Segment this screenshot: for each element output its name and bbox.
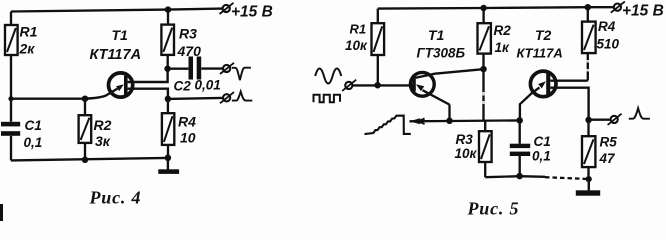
svg-text:ГТ308Б: ГТ308Б	[417, 46, 466, 61]
emitter arrowhead	[116, 84, 124, 91]
waveform negative spike	[232, 68, 251, 81]
wire emitter feed horizontal	[11, 98, 85, 100]
svg-text:0,1: 0,1	[24, 135, 43, 150]
svg-text:R2: R2	[94, 117, 112, 133]
wire R2 bottom lead	[84, 143, 86, 160]
transistor T1 ГТ308Б (pnp)	[410, 27, 483, 121]
svg-text:R1: R1	[350, 22, 367, 37]
node top rail R4	[585, 4, 592, 11]
node top rail R3	[165, 6, 172, 13]
terminal output 1	[220, 63, 234, 74]
wire R3 bottom lead to node	[167, 55, 169, 69]
emitter lead	[423, 90, 450, 104]
waveform positive spike right	[629, 108, 650, 119]
wire bottom rail right circuit	[485, 176, 545, 177]
terminal +15V left	[220, 3, 273, 21]
wire R2 vertical chain	[482, 8, 484, 23]
wire R4 top lead	[587, 7, 589, 21]
wire left vertical lower below C1	[10, 136, 12, 161]
svg-text:R4: R4	[178, 114, 196, 130]
resistor R1 10к	[345, 22, 384, 56]
svg-text:10к: 10к	[455, 146, 478, 161]
svg-text:Т2: Т2	[535, 27, 552, 43]
wire R4 bottom lead to B2	[587, 53, 589, 81]
node left T	[8, 96, 13, 101]
wire top rail left circuit	[11, 9, 222, 12]
wire C2 to terminal	[201, 67, 222, 69]
svg-text:КТ117А: КТ117А	[90, 47, 142, 63]
svg-text:R4: R4	[598, 19, 616, 34]
capacitor C2 0,01	[174, 57, 221, 94]
wire R5 top lead	[587, 120, 589, 136]
svg-text:R2: R2	[494, 23, 512, 38]
resistor R5 47	[582, 135, 617, 168]
emitter arrowhead	[416, 84, 424, 91]
transistor circle	[410, 72, 434, 96]
wire C2 feed from node	[168, 68, 189, 70]
node emitter/R2	[82, 95, 89, 102]
wire R2 top lead	[84, 99, 86, 116]
resistor R3 10к	[455, 131, 492, 162]
wire R1 top lead	[377, 9, 379, 24]
svg-text:R3: R3	[456, 132, 474, 147]
base2 lead	[550, 79, 588, 81]
base bar	[124, 76, 128, 96]
svg-text:1к: 1к	[495, 40, 511, 55]
svg-text:Рис. 4: Рис. 4	[89, 188, 142, 208]
wire output horizontal	[589, 119, 611, 121]
node B2/C2	[164, 65, 171, 72]
arrow head left (filled)	[409, 118, 420, 124]
svg-text:С1: С1	[534, 134, 551, 149]
svg-text:10: 10	[180, 130, 196, 146]
node collector	[480, 66, 487, 73]
resistor R1 2к	[5, 24, 38, 57]
svg-text:КТ117А: КТ117А	[517, 46, 563, 61]
waveform sine	[315, 69, 341, 84]
node R1/input	[374, 82, 381, 89]
wire bottom rail left circuit	[11, 158, 168, 161]
resistor R4 10	[162, 113, 196, 145]
wire top rail right circuit	[378, 7, 614, 8]
base bar	[412, 75, 416, 92]
svg-text:R5: R5	[600, 135, 618, 150]
transistor circle	[109, 73, 133, 97]
node top rail R2	[480, 5, 487, 12]
svg-text:Т1: Т1	[112, 27, 129, 43]
node R4 bottom	[165, 155, 172, 162]
collector lead	[416, 69, 484, 78]
svg-text:Рис. 5: Рис. 5	[467, 199, 520, 219]
capacitor C1 0,1	[1, 118, 42, 150]
node T1 emitter	[446, 118, 453, 125]
emitter arrowhead	[538, 81, 546, 88]
artifact left edge mark	[0, 204, 3, 221]
svg-text:С2: С2	[174, 79, 192, 94]
waveform square	[314, 95, 341, 103]
svg-text:2к: 2к	[19, 41, 36, 57]
transistor T2 КТ117А (unijunction)	[517, 27, 589, 121]
ground left	[158, 158, 179, 174]
wire C1 bottom lead	[519, 156, 521, 176]
node C1 bottom	[516, 173, 523, 180]
wire R2 bottom to emitter rail	[482, 54, 484, 121]
terminal output 2	[220, 92, 234, 103]
svg-text:С1: С1	[25, 118, 42, 133]
capacitor C1 0,1 right	[510, 134, 551, 164]
svg-text:R1: R1	[20, 24, 38, 40]
wire R4 top lead	[167, 99, 169, 113]
wire R3 bottom lead	[484, 162, 486, 177]
wire R1 bottom lead	[377, 55, 379, 85]
node R5 bottom	[586, 176, 592, 182]
waveform sawtooth	[365, 116, 411, 135]
emitter wire from C1 node	[520, 87, 540, 120]
waveform positive spike	[232, 92, 253, 101]
svg-text:+15 В: +15 В	[622, 3, 664, 20]
terminal output right	[608, 114, 622, 125]
wire scan fade nicks	[484, 60, 588, 104]
svg-text:0,01: 0,01	[195, 78, 221, 93]
wire emitter horizontal rail	[410, 119, 522, 122]
node R2 bottom	[82, 157, 89, 164]
terminal +15V right	[611, 2, 664, 20]
node C1 top	[516, 117, 523, 124]
svg-text:47: 47	[599, 151, 617, 166]
wire R3 top lead	[484, 120, 486, 131]
svg-text:Т1: Т1	[428, 27, 445, 43]
base1 lead	[550, 88, 588, 120]
wire output2 from node to terminal	[168, 98, 222, 99]
base bar	[546, 72, 550, 95]
transistor circle	[530, 71, 556, 97]
wire C1 top lead	[519, 121, 521, 144]
wire R5 bottom lead	[587, 167, 589, 179]
svg-text:+15 В: +15 В	[231, 4, 273, 21]
base2 lead	[128, 69, 168, 82]
svg-text:3к: 3к	[95, 133, 111, 149]
resistor R4 510	[582, 19, 620, 53]
wire bottom rail dashed part	[545, 177, 589, 179]
svg-text:0,1: 0,1	[532, 149, 551, 164]
wire left vertical (R1/C1 branch) upper	[10, 12, 12, 122]
resistor R2 3к	[79, 115, 112, 149]
svg-text:R3: R3	[179, 26, 197, 42]
base1 lead	[128, 89, 168, 99]
terminal input	[342, 80, 356, 91]
svg-text:510: 510	[597, 37, 620, 52]
transistor T1 КТ117А (unijunction)	[85, 27, 168, 99]
wire R4 bottom lead	[167, 145, 169, 158]
resistor R2 1к	[478, 23, 512, 55]
node B1/out2	[165, 96, 172, 103]
node B1/output	[585, 117, 592, 124]
wire R3 chain vertical	[167, 10, 169, 25]
ground right	[576, 179, 600, 196]
emitter wire from node	[85, 89, 118, 99]
resistor R3 470	[161, 25, 201, 59]
svg-text:10к: 10к	[345, 38, 368, 53]
wire input horizontal	[353, 84, 413, 86]
